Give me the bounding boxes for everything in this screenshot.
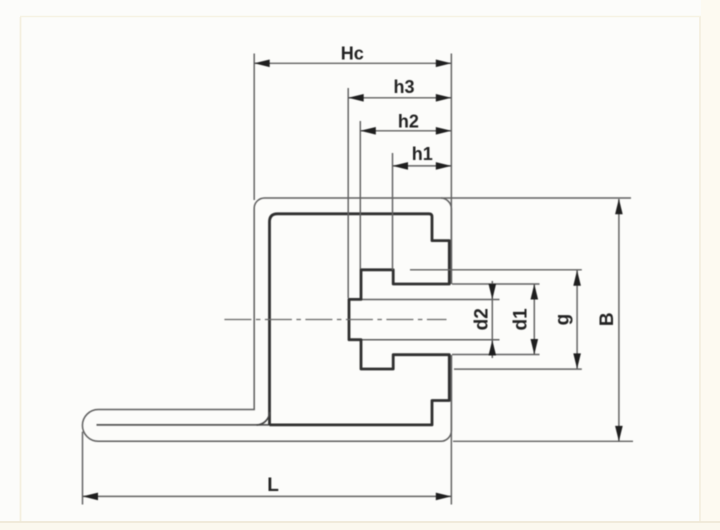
svg-text:d1: d1 (511, 308, 532, 331)
svg-text:h3: h3 (393, 77, 414, 97)
svg-text:d2: d2 (471, 308, 492, 330)
svg-text:g: g (553, 314, 574, 326)
svg-text:Hc: Hc (341, 44, 364, 64)
svg-text:h2: h2 (398, 112, 419, 132)
svg-text:L: L (267, 475, 279, 496)
svg-text:B: B (597, 312, 618, 326)
svg-text:h1: h1 (412, 144, 433, 164)
